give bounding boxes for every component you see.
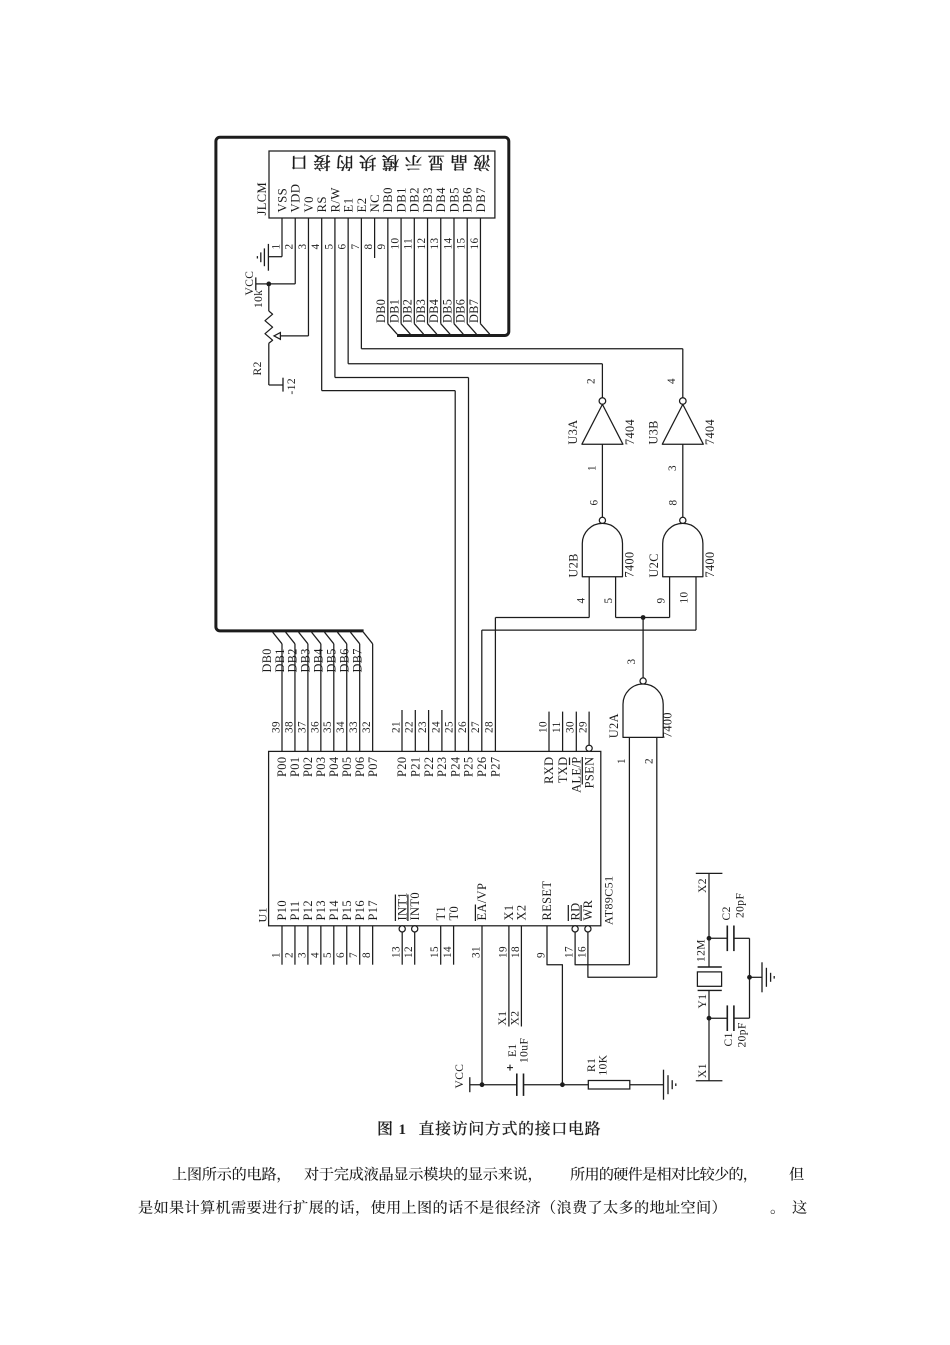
svg-text:13: 13 bbox=[391, 946, 403, 958]
bus entry DB1 (top) bbox=[401, 324, 410, 335]
wire JLCM DB3 down bbox=[427, 218, 429, 324]
wire JLCM DB2 down bbox=[413, 218, 415, 324]
paragraph line1 seg3 bbox=[571, 1167, 747, 1183]
svg-text:21: 21 bbox=[390, 721, 402, 733]
svg-text:15: 15 bbox=[456, 238, 468, 250]
paragraph line1 seg1 bbox=[173, 1167, 280, 1183]
ground (VSS) bbox=[267, 244, 269, 271]
svg-text:VCC: VCC bbox=[454, 1064, 466, 1089]
node P05 / bus entry DB5 (bottom) bbox=[337, 632, 346, 644]
wire to C2 bbox=[709, 937, 727, 939]
svg-text:P05: P05 bbox=[340, 757, 354, 777]
svg-text:DB3: DB3 bbox=[414, 299, 428, 323]
svg-text:DB6: DB6 bbox=[454, 299, 468, 323]
svg-text:P14: P14 bbox=[327, 900, 341, 920]
wire to C1 bbox=[709, 1017, 727, 1019]
svg-text:8: 8 bbox=[361, 952, 373, 958]
svg-text:25: 25 bbox=[444, 721, 456, 733]
svg-text:DB0: DB0 bbox=[260, 648, 274, 672]
paragraph line1 seg2 bbox=[304, 1167, 531, 1183]
wire C1 to ground branch bbox=[734, 1017, 750, 1019]
svg-text:4: 4 bbox=[666, 378, 678, 384]
svg-text:DB0: DB0 bbox=[381, 187, 395, 212]
pin T0 bbox=[453, 926, 455, 965]
svg-text:U2C: U2C bbox=[647, 553, 661, 577]
junction EA/VP rail bbox=[480, 1082, 485, 1087]
paragraph line1 seg4 bbox=[789, 1167, 803, 1181]
svg-text:6: 6 bbox=[337, 244, 349, 250]
svg-text:8: 8 bbox=[363, 244, 375, 250]
svg-text:P03: P03 bbox=[314, 757, 328, 777]
ground (reset rail) bbox=[663, 1070, 665, 1100]
svg-text:EA/VP: EA/VP bbox=[475, 883, 489, 921]
svg-text:14: 14 bbox=[442, 946, 454, 958]
svg-text:P11: P11 bbox=[288, 900, 302, 920]
svg-text:14: 14 bbox=[442, 238, 454, 250]
svg-text:E2: E2 bbox=[355, 197, 369, 212]
caption text bbox=[419, 1121, 600, 1136]
svg-text:16: 16 bbox=[576, 946, 588, 958]
svg-text:DB4: DB4 bbox=[427, 299, 441, 323]
node P01 / bus entry DB1 (bottom) bbox=[286, 632, 295, 644]
wire P13 stub bbox=[320, 926, 322, 965]
svg-text:P22: P22 bbox=[422, 757, 436, 777]
svg-text:DB2: DB2 bbox=[401, 299, 415, 323]
svg-text:DB2: DB2 bbox=[408, 187, 422, 212]
junction node U2B.5/U2C.9/U2A.3 bbox=[641, 615, 646, 620]
svg-text:3: 3 bbox=[626, 659, 638, 665]
title 液晶显示模块的接口 (rotated 180) bbox=[292, 155, 490, 171]
svg-text:5: 5 bbox=[603, 598, 615, 604]
wire U2C pin10 leg bbox=[695, 577, 697, 630]
svg-text:10K: 10K bbox=[597, 1054, 609, 1075]
svg-text:R/W: R/W bbox=[328, 187, 342, 213]
svg-text:DB0: DB0 bbox=[374, 299, 388, 323]
svg-text:4: 4 bbox=[575, 598, 587, 604]
wire X2 stub bbox=[520, 926, 522, 1027]
svg-text:3: 3 bbox=[296, 952, 308, 958]
wire JLCM DB4 down bbox=[440, 218, 442, 324]
svg-text:10uF: 10uF bbox=[519, 1038, 531, 1063]
capacitor E1 10uF (electrolytic) bbox=[516, 1074, 518, 1096]
svg-text:33: 33 bbox=[348, 721, 360, 733]
wire P10 stub bbox=[281, 926, 283, 965]
svg-text:RESET: RESET bbox=[540, 881, 554, 921]
svg-text:P27: P27 bbox=[488, 757, 502, 777]
wire P22 stub bbox=[428, 710, 430, 751]
svg-text:DB1: DB1 bbox=[273, 648, 287, 672]
pin INT1 bbox=[399, 926, 405, 932]
svg-text:5: 5 bbox=[323, 244, 335, 250]
wire to ground (crystal) bbox=[750, 976, 763, 978]
svg-text:7: 7 bbox=[350, 244, 362, 250]
microcontroller U1 AT89C51 bbox=[269, 751, 601, 925]
wire R2 to -12 bbox=[269, 384, 283, 386]
wire JLCM DB5 down bbox=[453, 218, 455, 324]
svg-text:36: 36 bbox=[309, 721, 321, 733]
svg-text:P12: P12 bbox=[301, 900, 315, 920]
wire U2B pin4 leg bbox=[588, 577, 590, 618]
svg-text:P00: P00 bbox=[275, 757, 289, 777]
wire P21 stub bbox=[414, 710, 416, 751]
wire U3B input from NAND bbox=[682, 444, 684, 517]
svg-text:R1: R1 bbox=[586, 1058, 598, 1072]
svg-text:P06: P06 bbox=[353, 757, 367, 777]
wire EA/VP to VCC rail bbox=[481, 926, 483, 1085]
svg-text:T0: T0 bbox=[447, 906, 461, 921]
net X1 open end bbox=[696, 1080, 723, 1082]
svg-text:U2B: U2B bbox=[567, 553, 581, 577]
svg-text:7400: 7400 bbox=[623, 552, 637, 578]
svg-text:12: 12 bbox=[416, 238, 428, 250]
svg-text:VDD: VDD bbox=[289, 184, 303, 213]
wire U2B pin5 leg bbox=[615, 577, 617, 618]
pin INT0 bbox=[412, 926, 418, 932]
svg-text:12: 12 bbox=[403, 946, 415, 958]
wire P23 stub bbox=[441, 710, 443, 751]
wire R/W to P25 bbox=[468, 378, 470, 752]
wire E1 down bbox=[347, 218, 349, 364]
svg-text:X2: X2 bbox=[515, 905, 529, 921]
svg-text:11: 11 bbox=[403, 238, 415, 250]
wire node to U2A output bbox=[642, 618, 644, 678]
svg-text:V0: V0 bbox=[302, 196, 316, 212]
wire JLCM DB7 down bbox=[479, 218, 481, 324]
svg-text:23: 23 bbox=[417, 721, 429, 733]
paragraph line2 seg2 bbox=[771, 1210, 775, 1214]
svg-text:DB3: DB3 bbox=[299, 648, 313, 672]
svg-text:8: 8 bbox=[667, 500, 679, 506]
svg-text:2: 2 bbox=[644, 758, 656, 764]
pin TXD bbox=[562, 712, 564, 752]
svg-text:3: 3 bbox=[297, 244, 309, 250]
svg-text:P25: P25 bbox=[462, 757, 476, 777]
wire crystal to X1 bbox=[708, 990, 710, 1080]
overline PSEN bbox=[581, 757, 583, 785]
svg-text:-12: -12 bbox=[286, 378, 298, 395]
wire U2B pin4 to P27 bbox=[495, 617, 589, 619]
svg-text:DB7: DB7 bbox=[474, 187, 488, 213]
wire down to P26 bbox=[481, 630, 483, 751]
svg-text:13: 13 bbox=[429, 238, 441, 250]
wire P15 stub bbox=[346, 926, 348, 965]
svg-text:10: 10 bbox=[389, 238, 401, 250]
svg-text:11: 11 bbox=[551, 721, 563, 733]
wire RS horizontal bbox=[322, 390, 456, 392]
node P06 / bus entry DB6 (bottom) bbox=[350, 632, 359, 644]
svg-text:7404: 7404 bbox=[703, 419, 717, 445]
svg-text:P16: P16 bbox=[353, 900, 367, 920]
svg-text:P10: P10 bbox=[275, 900, 289, 920]
svg-text:7400: 7400 bbox=[661, 712, 675, 738]
wire U2B pin5 to node bbox=[616, 617, 644, 619]
bus entry DB6 (top) bbox=[467, 324, 476, 335]
svg-text:34: 34 bbox=[335, 721, 347, 733]
svg-text:U1: U1 bbox=[255, 907, 269, 922]
svg-text:3: 3 bbox=[667, 465, 679, 471]
svg-text:2: 2 bbox=[586, 378, 598, 384]
svg-text:P20: P20 bbox=[395, 757, 409, 777]
svg-text:P23: P23 bbox=[435, 757, 449, 777]
svg-text:24: 24 bbox=[430, 721, 442, 733]
overline ALE/P bbox=[569, 758, 571, 766]
wire U2C pin10 horizontal bbox=[482, 629, 696, 631]
wire U3A input from NAND bbox=[601, 444, 603, 517]
svg-text:DB5: DB5 bbox=[325, 648, 339, 672]
svg-text:DB1: DB1 bbox=[394, 187, 408, 212]
bus entry DB3 (top) bbox=[428, 324, 437, 335]
wire U2A pin1 leg to RD bbox=[628, 737, 630, 964]
pin RD bbox=[572, 926, 578, 932]
wire V0 to R2 wiper bbox=[280, 335, 308, 337]
power -12 bbox=[282, 378, 284, 392]
caption 图 bbox=[379, 1121, 392, 1135]
wire RS down bbox=[321, 218, 323, 391]
wire U2C pin9 to node bbox=[643, 617, 670, 619]
svg-text:P21: P21 bbox=[409, 757, 423, 777]
wire RS to P24 bbox=[454, 391, 456, 752]
wire E1 to U3A output bbox=[601, 364, 603, 398]
wire P14 stub bbox=[333, 926, 335, 965]
wire JLCM DB0 down bbox=[387, 218, 389, 324]
wire U2C pin9 leg bbox=[669, 577, 671, 618]
pin WR bbox=[585, 926, 591, 932]
svg-text:20pF: 20pF bbox=[735, 893, 747, 918]
svg-text:19: 19 bbox=[497, 946, 509, 958]
svg-text:P24: P24 bbox=[448, 757, 462, 777]
wire P16 stub bbox=[359, 926, 361, 965]
svg-text:39: 39 bbox=[270, 721, 282, 733]
svg-text:2: 2 bbox=[284, 244, 296, 250]
wire E2 down bbox=[360, 218, 362, 349]
svg-text:17: 17 bbox=[564, 946, 576, 958]
svg-text:12M: 12M bbox=[696, 939, 708, 962]
svg-text:DB6: DB6 bbox=[461, 187, 475, 213]
svg-text:27: 27 bbox=[470, 721, 482, 733]
svg-text:9: 9 bbox=[655, 598, 667, 604]
svg-text:9: 9 bbox=[535, 952, 547, 958]
LCD module U: JLCM connector box bbox=[269, 151, 495, 218]
svg-text:6: 6 bbox=[589, 500, 601, 506]
svg-text:1: 1 bbox=[270, 952, 282, 958]
bus entry DB4 (top) bbox=[441, 324, 450, 335]
pin RXD bbox=[548, 712, 550, 752]
wire E1 to R1 bbox=[524, 1084, 589, 1086]
svg-text:E1: E1 bbox=[507, 1043, 519, 1057]
wire P17 stub bbox=[372, 926, 374, 965]
svg-text:DB7: DB7 bbox=[467, 299, 481, 323]
wire X1 stub bbox=[508, 926, 510, 1027]
svg-text:DB5: DB5 bbox=[447, 187, 461, 212]
svg-text:5: 5 bbox=[322, 952, 334, 958]
svg-text:4: 4 bbox=[309, 952, 321, 958]
inverter U3A 7404 bbox=[599, 398, 606, 405]
svg-text:31: 31 bbox=[470, 946, 482, 958]
node P03 / bus entry DB3 (bottom) bbox=[312, 632, 321, 644]
pin PSEN bbox=[586, 745, 592, 751]
svg-text:7400: 7400 bbox=[703, 552, 717, 578]
paragraph line2 seg3 bbox=[792, 1200, 806, 1214]
svg-text:4: 4 bbox=[310, 244, 322, 250]
wire R/W horizontal bbox=[335, 377, 469, 379]
svg-text:RXD: RXD bbox=[542, 757, 556, 784]
inverter U3B 7404 bbox=[680, 398, 687, 405]
svg-text:28: 28 bbox=[484, 721, 496, 733]
svg-text:P02: P02 bbox=[301, 757, 315, 777]
node P00 / bus entry DB0 (bottom) bbox=[273, 632, 282, 644]
svg-text:2: 2 bbox=[283, 952, 295, 958]
NAND gate U2C 7400 bbox=[680, 517, 686, 523]
power VCC (bottom rail) bbox=[469, 1077, 471, 1092]
svg-text:1: 1 bbox=[587, 465, 599, 471]
svg-text:DB4: DB4 bbox=[434, 187, 448, 213]
wire rail VCC to E1 bbox=[470, 1084, 517, 1086]
junction RESET rail bbox=[560, 1082, 565, 1087]
svg-text:R2: R2 bbox=[252, 361, 264, 375]
bus entry DB5 (top) bbox=[454, 324, 463, 335]
svg-text:6: 6 bbox=[335, 952, 347, 958]
wire U2A pin2 leg to WR bbox=[656, 737, 658, 977]
wire down to P27 bbox=[494, 618, 496, 752]
svg-text:E1: E1 bbox=[342, 197, 356, 212]
svg-text:P01: P01 bbox=[288, 757, 302, 777]
svg-text:38: 38 bbox=[283, 721, 295, 733]
junction C1/C2/ground bbox=[747, 975, 752, 980]
svg-text:JLCM: JLCM bbox=[255, 182, 269, 216]
svg-text:15: 15 bbox=[429, 946, 441, 958]
svg-text:P15: P15 bbox=[340, 900, 354, 920]
svg-text:9: 9 bbox=[376, 244, 388, 250]
svg-text:X1: X1 bbox=[497, 1011, 509, 1026]
overline EA bbox=[474, 905, 476, 922]
plus sign E1 bbox=[507, 1067, 513, 1069]
svg-text:P26: P26 bbox=[475, 757, 489, 777]
wire R1 to ground bbox=[630, 1084, 664, 1086]
potentiometer R2 10k bbox=[268, 284, 270, 311]
svg-text:C1: C1 bbox=[723, 1032, 735, 1046]
svg-text:1: 1 bbox=[399, 1122, 407, 1138]
ground (crystal) bbox=[761, 962, 763, 992]
resistor R1 10K bbox=[588, 1081, 630, 1090]
svg-text:U3B: U3B bbox=[646, 420, 660, 444]
svg-text:P13: P13 bbox=[314, 900, 328, 920]
svg-text:DB7: DB7 bbox=[350, 648, 364, 672]
svg-text:U2A: U2A bbox=[607, 713, 621, 738]
junction X1/C1 bbox=[707, 1016, 712, 1021]
svg-text:18: 18 bbox=[510, 946, 522, 958]
svg-text:7: 7 bbox=[348, 952, 360, 958]
power VCC (top) bbox=[255, 277, 257, 290]
node P02 / bus entry DB2 (bottom) bbox=[299, 632, 308, 644]
svg-text:T1: T1 bbox=[434, 906, 448, 921]
svg-text:DB4: DB4 bbox=[312, 648, 326, 672]
svg-text:X2: X2 bbox=[697, 878, 709, 893]
svg-text:P07: P07 bbox=[366, 757, 380, 777]
wire E2 horizontal bbox=[361, 348, 682, 350]
wire X2 to crystal bbox=[708, 873, 710, 967]
wire R/W down bbox=[334, 218, 336, 378]
svg-text:NC: NC bbox=[368, 194, 382, 213]
wire JLCM pin1 VSS down bbox=[281, 218, 283, 257]
svg-text:1: 1 bbox=[616, 758, 628, 764]
svg-text:10: 10 bbox=[678, 592, 690, 604]
wire JLCM DB6 down bbox=[466, 218, 468, 324]
wire C2 to ground branch bbox=[734, 937, 750, 939]
node P04 / bus entry DB4 (bottom) bbox=[325, 632, 334, 644]
wire JLCM pin3 V0 down bbox=[307, 218, 309, 336]
svg-text:INT0: INT0 bbox=[408, 892, 422, 920]
svg-text:26: 26 bbox=[457, 721, 469, 733]
wire P11 stub bbox=[294, 926, 296, 965]
svg-text:10: 10 bbox=[537, 721, 549, 733]
wire VDD to VCC node bbox=[269, 283, 295, 285]
bus entry DB2 (top) bbox=[414, 324, 423, 335]
wire E1 horizontal bbox=[348, 363, 602, 365]
svg-text:X1: X1 bbox=[697, 1063, 709, 1078]
wire JLCM DB1 down bbox=[400, 218, 402, 324]
svg-text:30: 30 bbox=[565, 721, 577, 733]
wire P12 stub bbox=[307, 926, 309, 965]
svg-text:DB6: DB6 bbox=[338, 648, 352, 672]
bus entry DB7 (top) bbox=[480, 324, 489, 335]
svg-text:WR: WR bbox=[581, 899, 595, 920]
svg-text:TXD: TXD bbox=[556, 757, 570, 784]
wire JLCM pin8 NC stub bbox=[374, 218, 376, 258]
svg-text:Y1: Y1 bbox=[697, 994, 709, 1009]
svg-text:DB1: DB1 bbox=[387, 299, 401, 323]
svg-text:AT89C51: AT89C51 bbox=[602, 876, 616, 925]
svg-text:29: 29 bbox=[578, 721, 590, 733]
R2 wiper arrow bbox=[274, 333, 280, 340]
svg-text:35: 35 bbox=[322, 721, 334, 733]
svg-text:P04: P04 bbox=[327, 757, 341, 777]
svg-text:10k: 10k bbox=[253, 290, 265, 308]
svg-text:C2: C2 bbox=[721, 906, 733, 920]
svg-text:20pF: 20pF bbox=[736, 1022, 748, 1047]
svg-text:X2: X2 bbox=[510, 1011, 522, 1026]
pin T1 bbox=[440, 926, 442, 965]
svg-text:DB5: DB5 bbox=[440, 299, 454, 323]
wire P20 stub bbox=[401, 710, 403, 751]
wire JLCM pin2 VDD down bbox=[294, 218, 296, 284]
NAND gate U2B 7400 bbox=[599, 517, 605, 523]
wire ground branch vertical bbox=[749, 938, 751, 1018]
bus entry DB0 (top) bbox=[388, 324, 397, 335]
junction VCC/R2 bbox=[266, 282, 271, 287]
svg-text:PSEN: PSEN bbox=[582, 757, 596, 789]
svg-text:22: 22 bbox=[404, 721, 416, 733]
node P07 / bus entry DB7 (bottom) bbox=[363, 632, 372, 644]
svg-text:P17: P17 bbox=[366, 900, 380, 920]
junction X2/C2 bbox=[707, 936, 712, 941]
svg-text:VSS: VSS bbox=[275, 188, 289, 213]
svg-text:DB2: DB2 bbox=[286, 648, 300, 672]
pin ALE/P bbox=[575, 712, 577, 752]
crystal Y1 12M bbox=[698, 966, 722, 968]
svg-text:1: 1 bbox=[270, 244, 282, 250]
svg-text:DB3: DB3 bbox=[421, 187, 435, 212]
svg-text:RS: RS bbox=[315, 196, 329, 212]
wire VSS to ground bbox=[268, 256, 282, 258]
svg-text:U3A: U3A bbox=[566, 420, 580, 445]
paragraph line2 seg1 bbox=[138, 1200, 716, 1216]
net X2 open end bbox=[696, 872, 723, 874]
svg-text:16: 16 bbox=[469, 238, 481, 250]
data bus DB[0..7] (thick bus line) bbox=[216, 137, 509, 631]
wire RESET to rail bbox=[547, 926, 562, 1085]
svg-text:32: 32 bbox=[361, 721, 373, 733]
NAND gate U2A 7400 bbox=[640, 678, 646, 684]
